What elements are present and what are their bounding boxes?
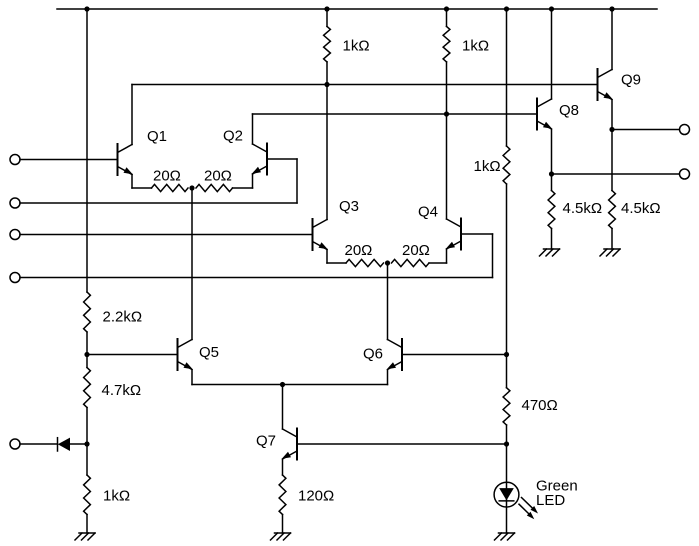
svg-text:Q5: Q5 xyxy=(199,344,219,361)
transistor Q1 xyxy=(117,144,119,175)
svg-text:Q7: Q7 xyxy=(256,433,276,450)
wire Q7 collector riser xyxy=(282,385,284,430)
terminal input 3 xyxy=(10,230,20,240)
svg-text:Q4: Q4 xyxy=(418,204,438,221)
wire diode to node xyxy=(70,443,87,445)
transistor Q4 xyxy=(460,219,462,250)
resistor 1k bottom-left xyxy=(84,475,91,515)
svg-text:20Ω: 20Ω xyxy=(153,168,181,185)
wire output 1 line xyxy=(612,129,680,131)
wire Q9 emitter to 4.5k b xyxy=(611,130,613,191)
svg-text:Q9: Q9 xyxy=(621,72,641,89)
svg-text:470Ω: 470Ω xyxy=(522,397,558,414)
svg-text:1kΩ: 1kΩ xyxy=(343,38,370,55)
wire Q5 emitter drop xyxy=(191,370,193,385)
wire 1k mid to Q6 base node xyxy=(506,184,508,355)
node diode junction xyxy=(84,441,89,446)
wire Q7 emitter drop xyxy=(282,460,284,476)
svg-text:4.7kΩ: 4.7kΩ xyxy=(102,382,142,399)
node junction on supply rail x=87 xyxy=(84,6,89,11)
wire Q6 emitter drop xyxy=(387,370,389,385)
ground below LED xyxy=(499,532,515,534)
wire output 2 line xyxy=(552,173,680,175)
node emitter center tap 1 xyxy=(189,185,194,190)
resistor 1k load b xyxy=(443,26,450,62)
wire Q9 emitter down xyxy=(611,100,613,130)
node emitter center tap 2 xyxy=(385,260,390,265)
wire rail to 1k load b xyxy=(446,9,448,26)
terminal output 1 xyxy=(680,125,690,135)
ground below 120R xyxy=(275,532,291,534)
wire node to 4.7k xyxy=(86,355,88,368)
terminal diode input xyxy=(10,439,20,449)
svg-text:Q2: Q2 xyxy=(223,128,243,145)
node Q7 collector junction xyxy=(280,382,285,387)
wire node through LED to ground xyxy=(506,444,508,533)
wire 1k a to bus node xyxy=(326,62,328,85)
terminal output 2 xyxy=(680,169,690,179)
svg-text:20Ω: 20Ω xyxy=(345,242,373,259)
wire from rail down to 2.2k xyxy=(86,9,88,292)
resistor 4.5k b xyxy=(609,191,616,229)
wire Q5-Q6 emitter tie xyxy=(192,384,388,386)
wire Q1 emitter drop xyxy=(131,175,133,189)
wire Q4 collector column xyxy=(446,114,448,219)
node Q5 base junction xyxy=(84,352,89,357)
wire 1k b down across bus A xyxy=(446,62,448,114)
wire Q1 emitter lead xyxy=(132,187,152,189)
resistor 20R pair2 right xyxy=(392,259,430,266)
transistor Q3 xyxy=(312,219,314,250)
ground below 4.5k b xyxy=(604,248,620,250)
transistor Q8 xyxy=(536,99,538,130)
ground below 4.5k a xyxy=(544,248,560,250)
resistor 4.5k a xyxy=(548,191,555,229)
LED emission arrow 1 xyxy=(522,498,534,509)
diode D1 cathode bar xyxy=(57,438,59,451)
svg-text:Q3: Q3 xyxy=(339,198,359,215)
wire diode node down xyxy=(86,444,88,475)
node Q6 base junction xyxy=(504,352,509,357)
wire 20R to Q2 emitter xyxy=(233,187,253,189)
transistor Q9 xyxy=(597,69,599,100)
node Q7 base junction xyxy=(504,441,509,446)
transistor Q2 xyxy=(266,144,268,175)
wire center tap 2 to Q6 collector xyxy=(387,263,389,340)
wire node to 4.5k a xyxy=(551,174,553,191)
wire rail to Q9 collector xyxy=(611,9,613,70)
ground bottom-left xyxy=(79,532,95,534)
wire node to 470R xyxy=(506,355,508,388)
wire input 2 riser xyxy=(296,159,298,203)
wire Q4 emitter drop xyxy=(446,249,448,263)
svg-text:20Ω: 20Ω xyxy=(402,242,430,259)
node junction on supply rail x=551.5 xyxy=(549,6,554,11)
node junction on supply rail x=506.5 xyxy=(504,6,509,11)
resistor 4.7k xyxy=(84,368,91,408)
wire input 3 to Q3 base xyxy=(20,234,313,236)
wire 20R to Q4 emitter xyxy=(429,262,447,264)
svg-text:LED: LED xyxy=(536,492,565,509)
terminal input 1 xyxy=(10,155,20,165)
node junction on supply rail x=327 xyxy=(324,6,329,11)
wire Q7 base xyxy=(297,443,507,445)
node bus A junction xyxy=(324,82,329,87)
wire bus A Q1 collector to Q9 base xyxy=(132,84,598,86)
wire bus B Q2 collector to Q8 base xyxy=(253,113,538,115)
svg-text:1kΩ: 1kΩ xyxy=(462,38,489,55)
wire terminal to diode xyxy=(20,443,58,445)
wire rail down to 1k mid xyxy=(506,9,508,146)
wire rail to 1k load a xyxy=(326,9,328,26)
wire Q2 emitter drop xyxy=(252,174,254,188)
transistor Q6 xyxy=(401,339,403,370)
LED triangle anode xyxy=(499,488,514,500)
wire 470R to Q7 base node xyxy=(506,425,508,444)
resistor 120R xyxy=(279,475,286,515)
svg-text:1kΩ: 1kΩ xyxy=(103,488,130,505)
diode D1 triangle xyxy=(58,438,70,451)
wire 120R to ground xyxy=(282,515,284,534)
LED D2 green circle xyxy=(494,482,519,507)
node junction on supply rail x=446.5 xyxy=(444,6,449,11)
wire Q8 emitter down xyxy=(551,130,553,175)
resistor 2.2k xyxy=(84,292,91,332)
wire 4.5k a to ground xyxy=(551,229,553,250)
node Q8 emitter junction xyxy=(549,171,554,176)
LED cathode bar xyxy=(499,500,514,502)
transistor Q7 xyxy=(296,429,298,460)
transistor Q5 xyxy=(177,339,179,370)
wire input 4 riser xyxy=(492,234,494,278)
wire 2.2k to node xyxy=(86,332,88,355)
svg-text:2.2kΩ: 2.2kΩ xyxy=(103,309,143,326)
wire Q3 collector column xyxy=(326,85,328,220)
resistor 20R pair1 left xyxy=(152,184,189,191)
wire Q3 emitter drop xyxy=(326,250,328,264)
wire input 4 to Q4 base xyxy=(461,233,493,235)
wire positive supply rail xyxy=(57,8,657,10)
wire input 2 run xyxy=(20,202,297,204)
resistor 20R pair2 left xyxy=(346,259,384,266)
terminal input 4 xyxy=(10,273,20,283)
wire rail to Q8 collector xyxy=(551,9,553,99)
wire Q3 emitter lead xyxy=(327,262,346,264)
svg-text:1kΩ: 1kΩ xyxy=(474,158,501,175)
wire Q1 collector riser xyxy=(131,85,133,145)
wire input 1 to Q1 base xyxy=(20,159,118,161)
resistor 20R pair1 right xyxy=(196,184,233,191)
svg-text:Q6: Q6 xyxy=(363,346,383,363)
wire input 2 to Q2 base xyxy=(267,158,297,160)
node bus B junction xyxy=(444,111,449,116)
resistor 1k load a xyxy=(324,26,331,62)
resistor 470R xyxy=(503,388,510,425)
svg-text:4.5kΩ: 4.5kΩ xyxy=(621,200,661,217)
wire Q6 base xyxy=(402,354,507,356)
node junction on supply rail x=612 xyxy=(609,6,614,11)
svg-text:4.5kΩ: 4.5kΩ xyxy=(563,200,603,217)
wire 4.7k to diode node xyxy=(86,408,88,445)
LED emission arrow 2 xyxy=(519,504,529,514)
wire center tap 1 to Q5 collector xyxy=(191,188,193,340)
svg-text:120Ω: 120Ω xyxy=(298,488,334,505)
wire 1k to ground xyxy=(86,515,88,534)
resistor 1k mid xyxy=(503,146,510,184)
wire 4.5k b to ground xyxy=(611,229,613,250)
svg-text:Q1: Q1 xyxy=(147,128,167,145)
wire Q2 collector riser xyxy=(252,114,254,144)
svg-text:20Ω: 20Ω xyxy=(204,168,232,185)
node Q9 emitter junction xyxy=(609,127,614,132)
terminal input 2 xyxy=(10,198,20,208)
svg-text:Q8: Q8 xyxy=(559,102,579,119)
wire Q5 base xyxy=(87,354,178,356)
wire input 4 run xyxy=(20,277,493,279)
